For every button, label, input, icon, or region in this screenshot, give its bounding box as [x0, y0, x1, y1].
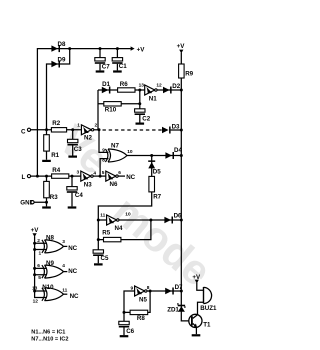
svg-text:D3: D3: [172, 123, 180, 130]
diode D7: [165, 288, 174, 295]
svg-text:L: L: [22, 174, 26, 181]
svg-text:C7: C7: [102, 64, 110, 71]
op-amp N4 inverter: [107, 215, 119, 225]
node junction N5 output: [149, 290, 152, 293]
diode D8: [51, 45, 60, 52]
op-amp N5 inverter: [135, 286, 147, 296]
node junction rail A end: [36, 175, 39, 178]
ground GND: [42, 206, 51, 208]
svg-text:1: 1: [77, 123, 80, 129]
ground C1: [113, 70, 122, 72]
node junction R6/N1: [138, 89, 141, 92]
wire N3 output to N6: [93, 175, 106, 177]
svg-text:N6: N6: [110, 181, 118, 188]
svg-text:R3: R3: [50, 194, 58, 201]
wire N5 input loop: [124, 291, 135, 312]
gate N8: [42, 240, 64, 253]
node junction R3: [45, 175, 48, 178]
svg-text:R2: R2: [52, 120, 60, 127]
svg-text:BUZ1: BUZ1: [200, 305, 217, 312]
svg-text:R7: R7: [153, 194, 161, 201]
resistor R9: [179, 64, 185, 78]
wire buzzer supply: [197, 283, 204, 291]
svg-text:13: 13: [139, 82, 145, 88]
ground R1: [42, 160, 51, 162]
wire N8 output NC: [64, 245, 68, 247]
svg-text:N4: N4: [115, 225, 123, 232]
wire D9 branch and rail B: [47, 49, 70, 130]
node junction GND: [45, 201, 48, 204]
svg-text:NC: NC: [68, 268, 77, 275]
svg-text:1: 1: [39, 251, 42, 257]
svg-text:3: 3: [77, 170, 80, 176]
ground C3: [68, 156, 77, 158]
svg-text:N2: N2: [84, 134, 92, 141]
node junction D5: [150, 154, 153, 157]
wire N7 pin9 from N2 output: [99, 130, 109, 153]
svg-text:N3: N3: [84, 181, 92, 188]
node junction R10 right: [138, 102, 141, 105]
wire GND row: [34, 202, 46, 206]
svg-text:R1: R1: [51, 152, 59, 159]
node junction N7 pin8: [99, 175, 102, 178]
gate N9: [42, 265, 64, 278]
resistor R2: [51, 128, 66, 132]
svg-text:N1: N1: [149, 95, 157, 102]
svg-text:R5: R5: [102, 230, 110, 237]
svg-text:C4: C4: [75, 192, 83, 199]
ground C2: [136, 123, 145, 125]
svg-text:N9: N9: [46, 260, 54, 267]
svg-text:C1: C1: [119, 63, 127, 70]
svg-text:C: C: [21, 129, 26, 136]
wire N10 top input: [35, 290, 46, 292]
svg-text:6: 6: [37, 263, 40, 269]
wire dashed link to D3: [103, 129, 163, 131]
node junction D7 rail: [180, 290, 183, 293]
resistor R6: [118, 88, 135, 92]
svg-text:11: 11: [62, 288, 67, 294]
svg-text:N7: N7: [111, 143, 119, 150]
resistor R10: [104, 102, 121, 106]
svg-text:9: 9: [102, 147, 105, 153]
svg-text:8: 8: [102, 158, 105, 164]
wire N10 output NC: [64, 293, 68, 295]
ground T1: [192, 334, 201, 336]
node junction D4 rail: [180, 154, 183, 157]
ground C6: [120, 335, 129, 337]
wire N9 inputs: [35, 268, 46, 274]
svg-text:2: 2: [37, 238, 40, 244]
ground C7: [96, 70, 105, 72]
diode D6: [164, 217, 173, 224]
svg-text:N10: N10: [42, 284, 54, 291]
capacitor C6: [123, 312, 125, 335]
diode D1: [102, 87, 111, 94]
svg-text:N8: N8: [46, 235, 54, 242]
diode D2: [163, 87, 172, 94]
diode D9: [51, 61, 60, 68]
svg-text:13: 13: [32, 285, 38, 291]
svg-text:C5: C5: [101, 255, 109, 262]
diode D3: [162, 127, 171, 134]
wire N7 pin8 from N3 output: [100, 159, 108, 177]
svg-text:ZD1: ZD1: [167, 307, 179, 314]
svg-text:5: 5: [102, 170, 105, 176]
svg-text:10: 10: [127, 149, 133, 155]
svg-text:N7...N10 = IC2: N7...N10 = IC2: [31, 337, 68, 343]
svg-text:4: 4: [62, 263, 65, 269]
svg-text:N1...N6 = IC1: N1...N6 = IC1: [31, 329, 65, 335]
wire right rail: [181, 53, 191, 321]
svg-text:R6: R6: [120, 81, 128, 88]
op-amp N1 inverter: [145, 85, 157, 95]
svg-text:6: 6: [118, 170, 121, 176]
svg-text:D9: D9: [58, 57, 66, 64]
wire C2 vertical: [139, 90, 141, 123]
svg-text:R9: R9: [185, 70, 193, 77]
wire N7 output row: [127, 155, 182, 157]
node junction D8 output: [68, 47, 71, 50]
wire top bus with left rail A: [37, 49, 131, 177]
svg-text:C3: C3: [74, 146, 82, 153]
node junction D3 rail: [180, 129, 183, 132]
node junction N2 output: [98, 128, 101, 131]
resistor R7: [149, 176, 155, 192]
svg-text:D2: D2: [172, 83, 180, 90]
svg-text:2: 2: [95, 122, 98, 128]
svg-text:3: 3: [62, 239, 65, 245]
svg-text:C6: C6: [126, 328, 134, 335]
node junction C7: [99, 47, 102, 50]
svg-text:+V: +V: [177, 43, 186, 50]
resistor R3: [46, 176, 48, 202]
wire N5 output row: [147, 290, 181, 292]
wire N6 output NC: [118, 175, 125, 177]
svg-text:C2: C2: [142, 115, 150, 122]
op-amp N3 inverter: [81, 171, 93, 181]
wire R10 row: [98, 103, 140, 105]
svg-text:D5: D5: [153, 169, 161, 176]
watermark: [50, 116, 220, 295]
svg-text:9: 9: [131, 286, 134, 292]
capacitor C3: [72, 130, 74, 156]
node junction C4: [71, 175, 74, 178]
wire T1 collector: [198, 302, 204, 315]
op-amp N6 inverter: [106, 171, 118, 181]
capacitor C1: [116, 49, 118, 71]
diode D4: [165, 152, 174, 159]
capacitor C5: [97, 256, 99, 263]
+V supply arrow top left: [131, 46, 135, 50]
svg-text:D1: D1: [102, 81, 110, 88]
capacitor C7: [99, 49, 101, 71]
resistor R8: [124, 291, 150, 312]
svg-text:12: 12: [156, 82, 162, 88]
node junction C1: [116, 47, 119, 50]
svg-text:D8: D8: [58, 41, 66, 48]
wire D3 to rail: [171, 129, 182, 131]
wire T1 emitter to ground: [195, 327, 197, 334]
zener ZD1: [178, 305, 185, 307]
node junction N4 output: [149, 219, 152, 222]
resistor R1: [46, 130, 48, 160]
wire N8 inputs: [35, 243, 46, 249]
svg-text:5: 5: [38, 275, 41, 281]
svg-text:R8: R8: [137, 315, 145, 322]
wire N9 output NC: [64, 271, 68, 273]
wire N8 block rail: [35, 236, 46, 297]
svg-text:T1: T1: [203, 322, 211, 329]
svg-text:11: 11: [100, 212, 105, 218]
wire N2 output: [94, 129, 99, 131]
buzzer BUZ1: [203, 287, 205, 304]
node junction D6 rail: [180, 219, 183, 222]
wire C row: [31, 129, 82, 131]
resistor R5: [98, 220, 151, 240]
wire L row: [31, 175, 81, 177]
svg-text:+V: +V: [137, 46, 146, 53]
svg-text:N5: N5: [139, 297, 147, 304]
node junction N4 input: [97, 219, 100, 222]
node junction C3: [71, 128, 74, 131]
wire rail C from D1 down to N2 output: [97, 90, 99, 130]
svg-text:NC: NC: [68, 245, 77, 252]
capacitor C2: [135, 109, 145, 115]
node junction D2 rail: [180, 89, 183, 92]
diode D5: [148, 160, 155, 162]
transistor T1: [189, 314, 202, 327]
ground C4: [68, 206, 77, 208]
node junction rail B / R1: [45, 128, 48, 131]
op-amp N2 inverter: [81, 125, 93, 135]
svg-text:10: 10: [125, 212, 131, 218]
svg-text:NC: NC: [70, 293, 79, 300]
wire D5/R7 vertical down to N4 input: [98, 156, 151, 250]
wire N1 output: [157, 89, 181, 91]
svg-text:NC: NC: [126, 174, 135, 181]
resistor R4: [52, 174, 69, 178]
svg-text:+V: +V: [31, 227, 40, 234]
gate N10: [42, 288, 64, 301]
svg-text:D4: D4: [174, 147, 182, 154]
gate N7: [105, 149, 127, 162]
wire N4 output row: [119, 219, 181, 221]
svg-text:R4: R4: [52, 167, 60, 174]
svg-text:R10: R10: [105, 107, 117, 114]
svg-text:12: 12: [33, 299, 39, 305]
wire N4 input stub: [98, 219, 106, 221]
ground C5: [94, 263, 103, 265]
wire N1 row input: [98, 89, 145, 91]
capacitor C4: [71, 176, 73, 206]
